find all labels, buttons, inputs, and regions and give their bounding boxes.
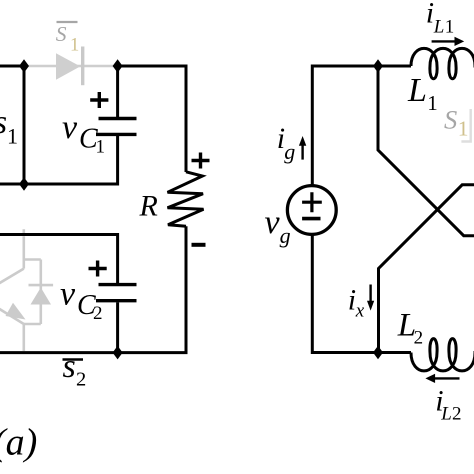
- capacitor C1 top lead: [116, 66, 119, 117]
- diode S1bar (gray, anode left): [56, 47, 83, 86]
- node junction dot at (117.6,352.6): [113, 346, 123, 360]
- svg-text:x: x: [355, 300, 365, 321]
- transistor Q emitter arrow: [6, 303, 26, 320]
- node junction dot at (24,66): [19, 59, 29, 73]
- svg-text:1: 1: [96, 136, 106, 157]
- plus sign for C2: [89, 261, 107, 277]
- voltage source vg circle: [287, 186, 336, 235]
- inductor L1 coil: [411, 48, 474, 78]
- svg-text:v: v: [62, 109, 78, 146]
- svg-text:S: S: [56, 22, 67, 46]
- svg-text:1: 1: [445, 16, 455, 37]
- label s1: [0, 104, 18, 149]
- label vC1: [62, 109, 105, 157]
- svg-text:L: L: [440, 404, 452, 425]
- svg-text:v: v: [265, 204, 281, 241]
- svg-text:2: 2: [452, 404, 462, 425]
- svg-text:2: 2: [414, 327, 424, 348]
- minus sign for R: [192, 243, 206, 247]
- svg-text:1: 1: [458, 117, 469, 141]
- label L2: [397, 307, 423, 348]
- transistor Q bottom bar: [24, 323, 41, 326]
- node junction dot at (378,66): [373, 59, 383, 73]
- label vC2: [60, 276, 103, 324]
- capacitor C2 bottom lead: [116, 302, 119, 352]
- arrow ix (down): [367, 285, 374, 311]
- node junction dot at (117.6,66): [113, 59, 123, 73]
- label iL1: [426, 0, 455, 38]
- svg-text:2: 2: [76, 369, 86, 391]
- transistor Q (gray IGBT) top lead: [22, 229, 25, 268]
- wire diagonal B from right edge down to bottom node: [379, 185, 474, 353]
- transistor Q collector branch to diode: [24, 258, 41, 261]
- wire below source to L2: [312, 234, 411, 352]
- inductor L2 coil: [411, 339, 474, 371]
- svg-text:R: R: [139, 190, 158, 223]
- node junction dot at (378,352.5): [373, 346, 383, 360]
- capacitor C1 bottom lead and wire y=183: [0, 136, 118, 184]
- label S1 (gray, right): [444, 105, 469, 141]
- arrow ig (up): [299, 136, 306, 160]
- node junction dot at (24,184): [19, 177, 29, 191]
- wire vertical + diagonal A with right stub: [378, 66, 474, 236]
- svg-text:S: S: [444, 105, 457, 135]
- svg-text:(a): (a): [0, 422, 37, 464]
- svg-text:1: 1: [427, 91, 438, 115]
- svg-text:s: s: [63, 348, 76, 385]
- voltage source plus: [302, 192, 322, 212]
- wire gray under diode S1bar: [24, 65, 118, 68]
- label L1: [407, 72, 438, 115]
- capacitor C1 plates: [99, 117, 137, 120]
- transistor Q bottom lead: [22, 324, 25, 351]
- transistor Q diode triangle (up): [31, 288, 52, 305]
- capacitor C2 plates: [99, 283, 137, 286]
- svg-text:2: 2: [93, 303, 103, 324]
- wire top-left stub at y=66: [0, 65, 24, 68]
- transistor Q diode cathode bar: [29, 284, 54, 287]
- resistor R zigzag: [168, 172, 204, 227]
- label ix: [348, 284, 365, 322]
- plus sign for C1: [90, 92, 108, 108]
- wire right circuit top: from source corner to L1: [312, 66, 411, 186]
- wire y=235.5 to C2: [0, 235, 118, 284]
- label iL2: [435, 384, 461, 424]
- label S1bar: [56, 22, 79, 55]
- svg-text:v: v: [60, 276, 76, 313]
- transistor Q collector diagonal: [0, 269, 24, 284]
- wire vertical s1 branch: [23, 66, 26, 184]
- transistor Q emitter diagonal: [0, 308, 24, 324]
- transistor Q antiparallel diode branch: [39, 260, 42, 325]
- plus sign for R: [192, 153, 210, 169]
- wire top to R corner: [118, 66, 186, 172]
- gray bracket fragment (right edge): [461, 109, 470, 142]
- svg-text:g: g: [280, 223, 291, 248]
- svg-text:L: L: [407, 72, 427, 109]
- label ig: [277, 122, 296, 164]
- label s2bar: [63, 348, 87, 391]
- voltage source minus: [302, 217, 320, 221]
- wire below R down to bottom and left: [0, 226, 186, 352]
- svg-text:1: 1: [7, 124, 18, 149]
- svg-text:L: L: [433, 17, 445, 38]
- svg-text:1: 1: [70, 35, 79, 55]
- svg-text:g: g: [284, 139, 295, 164]
- arrow iL2 (left): [425, 374, 459, 383]
- svg-text:s: s: [0, 104, 7, 141]
- arrow iL1 (right): [432, 37, 465, 46]
- label vg: [265, 204, 291, 248]
